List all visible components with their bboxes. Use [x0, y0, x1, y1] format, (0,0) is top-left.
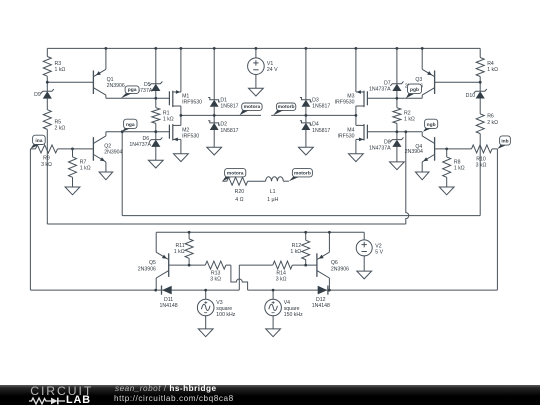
svg-text:pgb: pgb — [410, 87, 419, 93]
svg-text:D2: D2 — [220, 122, 227, 128]
svg-text:2 kΩ: 2 kΩ — [55, 125, 66, 131]
svg-text:1N5817: 1N5817 — [312, 104, 330, 110]
wire ngb cross-coupling to R5 (net d) with hop over net c — [47, 223, 406, 225]
node label motorb (bridge B output) — [273, 110, 284, 116]
junction motorb / D3-D4 — [305, 114, 308, 117]
svg-text:square: square — [284, 306, 300, 312]
resistor R5 — [43, 110, 65, 224]
resistor R9 — [36, 145, 58, 168]
node label motora (load) — [222, 176, 233, 181]
svg-text:R11: R11 — [175, 243, 184, 249]
svg-text:R14: R14 — [276, 271, 286, 277]
node label motora (bridge A output) — [240, 110, 250, 116]
svg-text:3 kΩ: 3 kΩ — [276, 277, 287, 283]
junction V4 output — [272, 289, 275, 292]
resistor R2 — [393, 98, 415, 132]
junction pga / D5-R1 — [154, 97, 157, 100]
svg-text:R13: R13 — [211, 271, 221, 277]
junction Q5 base / R11-R13 — [188, 264, 191, 267]
junction V3 output — [204, 289, 207, 292]
square wave source V3 (100 kHz) — [197, 290, 235, 329]
svg-text:D8: D8 — [384, 140, 391, 146]
resistor R14 — [273, 261, 293, 283]
junction motora / M1-M2 drains — [180, 114, 183, 117]
junction rail / D7 — [396, 47, 399, 50]
junction rail / R3-D9 node — [46, 81, 49, 84]
node label pga — [121, 93, 134, 98]
svg-text:1 μH: 1 μH — [267, 197, 278, 203]
svg-text:V1: V1 — [267, 61, 273, 67]
svg-text:D12: D12 — [316, 297, 326, 303]
svg-text:R7: R7 — [80, 160, 87, 166]
square wave source V4 (150 kHz) — [265, 290, 303, 329]
transistor Q5 (PNP 2N3906) — [138, 232, 169, 290]
junction +5V rail / R12 — [304, 231, 307, 234]
ground below V2 — [357, 271, 372, 279]
junction rail / D1 — [213, 47, 216, 50]
svg-text:2N3904: 2N3904 — [104, 149, 122, 155]
ground below R7 — [65, 187, 80, 195]
resistor R10 — [472, 145, 493, 169]
junction ngb / R2-D8 — [396, 130, 399, 133]
junction rail / M1 source — [180, 47, 183, 50]
junction +5V rail / Q6 emitter — [328, 231, 331, 234]
footer title line — [115, 385, 217, 393]
transistor Q4 (NPN 2N3904, mirrored) — [405, 132, 435, 172]
wire +24V top rail — [47, 47, 480, 49]
zener diode D9 — [34, 82, 54, 110]
svg-text:IRF530: IRF530 — [337, 134, 354, 140]
svg-text:D1: D1 — [220, 97, 227, 103]
svg-text:1N4737A: 1N4737A — [369, 86, 391, 92]
svg-text:1 kΩ: 1 kΩ — [454, 166, 465, 172]
node ngb wire — [367, 131, 422, 133]
svg-text:R4: R4 — [487, 61, 494, 67]
svg-text:M2: M2 — [182, 127, 189, 133]
ground below Q4 — [415, 172, 429, 180]
resistor R7 — [69, 149, 91, 187]
svg-text:1 kΩ: 1 kΩ — [163, 117, 174, 123]
svg-text:R10: R10 — [476, 156, 486, 162]
svg-text:nga: nga — [126, 123, 135, 128]
CircuitLab logo text LAB — [66, 395, 91, 405]
node label ngb — [423, 128, 433, 132]
svg-text:motorb: motorb — [278, 104, 295, 110]
svg-text:R1: R1 — [163, 110, 170, 116]
node label pgb — [406, 93, 416, 98]
junction rail / Q3 emitter — [421, 47, 424, 50]
schottky diode D1 — [208, 48, 238, 115]
CircuitLab logo text CIRCUIT — [30, 385, 93, 397]
ground below D8 — [390, 162, 405, 170]
svg-text:1N4737A: 1N4737A — [129, 142, 151, 148]
junction ina net / Q5 collector / D11 — [154, 289, 157, 292]
svg-text:1 kΩ: 1 kΩ — [80, 166, 91, 172]
zener diode D7 — [369, 48, 404, 98]
svg-text:R12: R12 — [292, 243, 302, 249]
node pga wire — [106, 97, 169, 99]
svg-text:M4: M4 — [347, 127, 354, 133]
svg-text:100 kHz: 100 kHz — [216, 312, 235, 318]
svg-text:2N3906: 2N3906 — [331, 266, 349, 272]
svg-text:3 kΩ: 3 kΩ — [41, 162, 52, 168]
resistor R6 — [476, 114, 498, 216]
svg-text:D11: D11 — [164, 297, 173, 303]
ground below Q2 — [99, 172, 113, 180]
wire motor load — [222, 180, 227, 182]
svg-text:1 kΩ: 1 kΩ — [290, 249, 301, 255]
transistor Q1 (PNP 2N3906) — [93, 48, 124, 98]
transistor Q2 (NPN 2N3904) — [93, 132, 122, 172]
svg-text:1 kΩ: 1 kΩ — [404, 117, 415, 123]
schottky diode D3 — [300, 48, 330, 115]
wire Q1 base to R3/D9 — [47, 81, 93, 83]
resistor R20 (motor) — [227, 177, 248, 203]
svg-text:R20: R20 — [235, 189, 245, 195]
node label inb — [497, 145, 507, 149]
junction motora / D1-D2 — [213, 114, 216, 117]
wire Q5 base / R11 / R13 — [169, 264, 206, 266]
voltage source V2 (5 V) — [356, 232, 383, 271]
svg-text:Q3: Q3 — [415, 77, 422, 83]
svg-text:square: square — [216, 306, 232, 312]
svg-text:D3: D3 — [312, 97, 319, 103]
svg-text:1N4148: 1N4148 — [312, 303, 330, 309]
wire motorb (upper) — [271, 114, 356, 116]
svg-text:1 kΩ: 1 kΩ — [55, 67, 66, 73]
ground below D2 — [207, 147, 222, 155]
junction rail / D5 — [154, 47, 157, 50]
svg-text:4 Ω: 4 Ω — [235, 197, 243, 203]
wire inb input line — [435, 148, 472, 150]
wire inb vertical drop — [496, 149, 498, 290]
ground below D4 — [299, 147, 314, 155]
wire ina input line — [30, 148, 35, 150]
svg-text:R6: R6 — [487, 114, 494, 120]
svg-text:ngb: ngb — [427, 122, 436, 128]
MOSFET M3 (IRF9530 P-channel, mirrored) — [335, 48, 368, 115]
svg-text:inb: inb — [501, 139, 508, 145]
wire ina vertical drop — [29, 149, 31, 290]
svg-text:D7: D7 — [384, 80, 391, 86]
svg-text:V4: V4 — [284, 300, 290, 306]
svg-text:Q6: Q6 — [331, 260, 338, 266]
svg-text:2N3906: 2N3906 — [138, 266, 156, 272]
ground below D6 — [148, 160, 163, 168]
svg-text:2 kΩ: 2 kΩ — [487, 120, 498, 126]
inductor L1 (motor) — [266, 177, 284, 203]
ground below V1 — [249, 88, 264, 96]
svg-text:R3: R3 — [55, 61, 62, 67]
junction rail / D3 — [305, 47, 308, 50]
svg-text:D6: D6 — [143, 136, 150, 142]
diode D12 (1N4148) — [312, 286, 330, 310]
wire Q3 base to R4/D10 — [435, 81, 481, 83]
resistor R3 — [43, 48, 65, 82]
svg-text:24 V: 24 V — [267, 67, 278, 73]
svg-text:1N5817: 1N5817 — [220, 104, 238, 110]
schottky diode D2 — [208, 115, 238, 147]
zener diode D6 — [129, 132, 162, 161]
transistor Q3 (PNP 2N3906, mirrored) — [405, 48, 435, 98]
svg-text:1 kΩ: 1 kΩ — [487, 67, 498, 73]
junction R8/Q4 base — [445, 148, 448, 151]
svg-text:1N5817: 1N5817 — [312, 128, 330, 134]
resistor R8 — [443, 149, 465, 187]
junction inb net / Q6 collector / D12 — [328, 289, 331, 292]
svg-text:R5: R5 — [55, 119, 62, 125]
voltage source V1 (24 V) — [248, 48, 279, 88]
svg-text:5 V: 5 V — [375, 250, 383, 256]
wire bottom left net (ina / Q5 collector / D11 / V3) — [30, 289, 239, 291]
node label motorb (load) — [289, 176, 301, 181]
svg-text:1N4737A: 1N4737A — [369, 146, 391, 152]
footer bar — [0, 385, 540, 405]
svg-text:D9: D9 — [34, 92, 41, 98]
footer url line — [114, 395, 234, 403]
node pgb wire — [367, 97, 422, 99]
svg-text:D4: D4 — [312, 122, 319, 128]
schottky diode D4 — [300, 115, 330, 147]
svg-text:R9: R9 — [43, 156, 50, 162]
svg-text:2N3906: 2N3906 — [107, 83, 125, 89]
MOSFET M4 (IRF530 N-channel, mirrored) — [337, 115, 367, 153]
wire motora (upper) — [181, 114, 261, 116]
junction nga / cross-wire drop — [121, 130, 124, 133]
CircuitLab logo glyph (resistor + diode) — [29, 396, 67, 406]
node label ina — [30, 144, 40, 149]
wire driver emitter rail (+5V) — [156, 231, 364, 233]
junction pgb / D7-R2 — [396, 97, 399, 100]
svg-text:Q1: Q1 — [107, 77, 114, 83]
svg-text:V3: V3 — [216, 300, 222, 306]
ground below M4 — [349, 154, 364, 162]
ground below V4 — [266, 329, 281, 337]
resistor R11 — [174, 232, 193, 265]
svg-text:motorb: motorb — [294, 171, 311, 177]
junction rail / Q1 emitter — [105, 47, 108, 50]
wire V3 riser to R14 — [238, 265, 240, 290]
ground below R8 — [439, 187, 454, 195]
svg-text:IRF9530: IRF9530 — [182, 100, 202, 106]
resistor R4 — [476, 48, 498, 82]
svg-text:M1: M1 — [182, 93, 189, 99]
svg-text:D10: D10 — [466, 93, 476, 99]
MOSFET M2 (IRF530 N-channel) — [169, 115, 199, 153]
wire R14 / R12 / Q6 base — [292, 264, 317, 266]
junction rail / V1 — [255, 47, 258, 50]
resistor R13 — [205, 261, 226, 283]
junction rail / M3 source — [355, 47, 358, 50]
junction Q6 base / R12-R14 — [304, 264, 307, 267]
diode D11 (1N4148) — [160, 286, 178, 310]
wire nga cross-coupling to R6 (net c) — [121, 132, 123, 216]
svg-text:motora: motora — [244, 104, 261, 110]
node label nga — [122, 128, 132, 132]
junction nga / R1-D6 — [154, 130, 157, 133]
svg-text:1N5817: 1N5817 — [220, 128, 238, 134]
svg-text:150 kHz: 150 kHz — [284, 312, 303, 318]
svg-text:D5: D5 — [144, 82, 151, 88]
zener diode D10 — [466, 82, 487, 114]
zener diode D8 — [369, 132, 404, 162]
svg-text:pga: pga — [128, 88, 137, 93]
junction R7/Q2 base — [71, 148, 74, 151]
MOSFET M1 (IRF9530 P-channel) — [169, 48, 202, 115]
svg-text:ina: ina — [35, 138, 42, 144]
resistor R1 — [152, 98, 174, 131]
svg-text:motora: motora — [227, 171, 244, 177]
junction +5V rail / R11 — [188, 231, 191, 234]
transistor Q6 (PNP 2N3906, mirrored) — [317, 232, 349, 290]
wire bottom right net (V4 / D12 / Q6 collector / inb) — [248, 289, 498, 291]
svg-text:R2: R2 — [404, 110, 411, 116]
svg-text:V2: V2 — [375, 244, 381, 250]
svg-text:3 kΩ: 3 kΩ — [210, 277, 221, 283]
svg-text:2N3904: 2N3904 — [405, 149, 423, 155]
node nga wire — [106, 131, 169, 133]
ground below M2 — [174, 154, 189, 162]
svg-text:Q5: Q5 — [149, 260, 156, 266]
svg-text:1N4148: 1N4148 — [160, 303, 178, 309]
resistor R12 — [290, 232, 309, 265]
wire R13 to V4 net with hop over V3 riser — [226, 264, 231, 266]
svg-text:R8: R8 — [454, 160, 461, 166]
svg-text:M3: M3 — [347, 93, 354, 99]
junction R4 / D10 / Q3 base — [479, 81, 482, 84]
svg-text:IRF530: IRF530 — [182, 134, 199, 140]
junction motorb / M3-M4 drains — [355, 114, 358, 117]
svg-text:L1: L1 — [270, 189, 276, 195]
junction ngb / cross-wire drop — [404, 130, 407, 133]
svg-text:1 kΩ: 1 kΩ — [174, 249, 185, 255]
svg-text:3 kΩ: 3 kΩ — [476, 163, 487, 169]
zener diode D5 — [131, 48, 163, 98]
svg-text:IRF9530: IRF9530 — [335, 100, 355, 106]
ground below V3 — [198, 329, 213, 337]
